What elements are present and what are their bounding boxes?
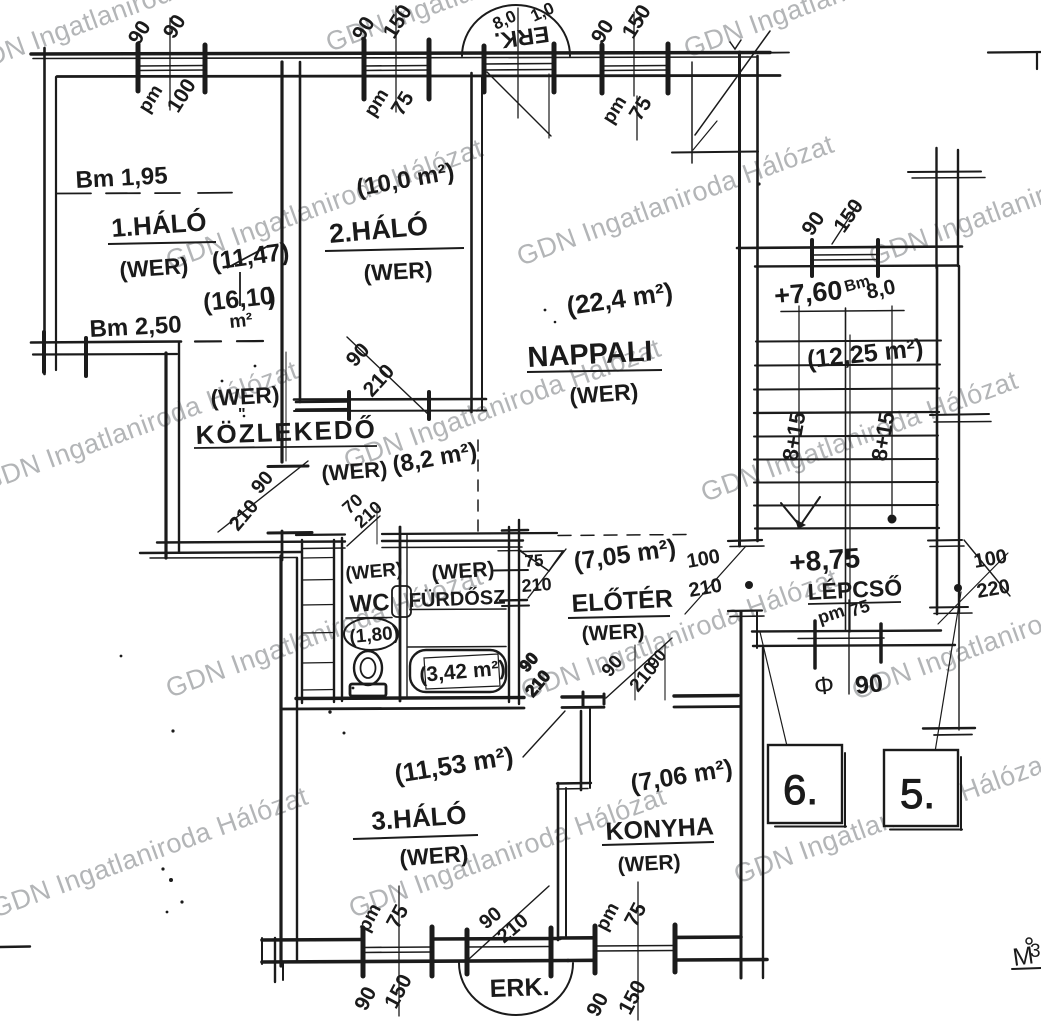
nappali corner small v mark (730, 40, 741, 49)
label kozlekedo WER2 (321, 456, 389, 486)
wall 2.halo-nappali vertical (472, 73, 483, 412)
wall kozlekedo east lower part below door (282, 352, 286, 560)
watermark row3 right (848, 563, 1041, 706)
watermark row4 right (730, 747, 1041, 890)
nappali corner cross diagonal (695, 31, 770, 135)
wall kozlekedo bottom outer line2 (140, 552, 302, 558)
svg-text:5.: 5. (900, 770, 935, 817)
door wc swing diagonal (347, 505, 380, 546)
dashed wall bm250 continuation (195, 340, 268, 343)
label W6 dims below (582, 977, 651, 1021)
label KOZLEKEDO (195, 414, 377, 450)
balcony door top mid lines (484, 64, 554, 71)
nappali corner tick horizontal (672, 152, 758, 153)
door 2.halo head double tick (296, 402, 348, 410)
landing tick right (879, 624, 883, 662)
wc size ellipse (344, 618, 398, 650)
wall 3.halo east jamb (558, 783, 566, 940)
speckle dots (120, 16, 761, 913)
label 7,05 m2 (572, 534, 678, 576)
box 6 (768, 745, 846, 827)
dashed line bm195 (57, 193, 242, 194)
svg-text:3: 3 (1030, 941, 1041, 962)
svg-text:ERK.: ERK. (489, 973, 550, 1003)
svg-text:m²: m² (228, 310, 253, 333)
washbasin (392, 586, 411, 617)
label 11,47 crossed (210, 237, 291, 276)
label ELOTER (571, 584, 674, 618)
wall bath block bottom line1 (296, 696, 738, 699)
landing right step tick pair (923, 728, 975, 735)
window W3 mid lines (602, 66, 668, 71)
door 2.halo dimension diagonal (347, 337, 430, 416)
label kozlekedo underline (194, 446, 377, 448)
watermark row0 center (322, 0, 647, 58)
label 3.halo underline (353, 835, 478, 839)
label NAPPALI (527, 335, 654, 374)
svg-text:Bm 2,50: Bm 2,50 (89, 311, 182, 343)
nappali corner tick vertical (691, 62, 693, 163)
landing right faint vertical (958, 592, 960, 730)
window W5 jambs (363, 927, 432, 976)
wall bath block bottom line2 (281, 707, 740, 710)
label 12,25 m2 (806, 334, 925, 374)
label balcony top dims (490, 0, 557, 34)
wall wc-furdo divider (400, 527, 407, 701)
label M3 bottom right (1011, 938, 1041, 972)
stairs window dimension slash (832, 204, 858, 244)
window W6 dimension divider (637, 882, 639, 1020)
label 1.halo WER (119, 252, 190, 283)
label W5 dims above (354, 900, 414, 935)
window W3 jamb ticks (602, 44, 668, 93)
box 5 label (900, 770, 935, 817)
label wc door 70/210 (338, 490, 386, 532)
window W1 jamb ticks (138, 44, 205, 92)
wall Bm2,50 step horizontal (31, 332, 181, 376)
nappali corner small diagonal (693, 121, 717, 150)
wall 3.halo bottom line2 (262, 961, 568, 963)
balcony door bottom jambs (467, 928, 551, 976)
window W6 mid lines (595, 946, 675, 952)
window W1 dimension divider (169, 18, 171, 110)
door 2.halo jambs (349, 392, 429, 419)
balcony door bottom line (467, 946, 551, 949)
watermark row4 mid (345, 781, 670, 924)
svg-text:": " (238, 406, 246, 423)
wall below 2.halo horizontal (294, 399, 486, 411)
label W2 dims above (348, 1, 417, 45)
stair dot marker (888, 515, 897, 524)
label eloter WER (581, 620, 645, 646)
door elotere left head ticks (728, 540, 764, 617)
label 16,10 m2 (202, 272, 277, 333)
wall nappali east vertical upper (740, 52, 758, 546)
svg-text:(WER): (WER) (431, 558, 495, 585)
wall konyha west jamb step (557, 783, 591, 789)
svg-text:(WER): (WER) (581, 620, 645, 646)
shaft west wall (301, 540, 303, 703)
svg-text:Φ: Φ (813, 671, 836, 701)
label konyha underline (602, 842, 714, 845)
svg-text:(WER): (WER) (119, 252, 190, 283)
label door 100/210 (685, 545, 724, 601)
tick stairs right top (908, 172, 985, 179)
wall top exterior inner line (57, 76, 780, 77)
balcony door top diagonal (487, 72, 551, 138)
label 3.halo WER (399, 840, 470, 871)
label LEPCSO (807, 573, 903, 605)
bathtub inner (424, 654, 500, 689)
watermark row0 right (680, 0, 1005, 64)
label W1 dims below (134, 75, 200, 117)
door elotere left dot (745, 581, 753, 589)
window W2 mid lines (364, 66, 429, 71)
furdosz underline (410, 608, 506, 611)
svg-text:(WER): (WER) (363, 256, 433, 286)
label 11,53 m2 (392, 741, 515, 789)
watermark row1 right (865, 129, 1041, 272)
wall bottom far-left mark (0, 945, 30, 948)
svg-text:Bm 1,95: Bm 1,95 (75, 162, 168, 194)
svg-text:NAPPALI: NAPPALI (527, 335, 654, 374)
door konyha swing diagonal (604, 638, 672, 704)
wall kozlekedo west vertical (166, 342, 179, 558)
wall 1.halo east vertical (between 1.HALO and 2.HALO) (282, 62, 300, 462)
M3 mark underline bottom right (1012, 968, 1041, 969)
watermark row1 left faint (162, 133, 487, 276)
svg-text:ELŐTÉR: ELŐTÉR (571, 584, 674, 618)
label Bm 1,95 (75, 162, 168, 194)
label 3.HALO (370, 799, 467, 836)
label 1.halo underline (108, 242, 216, 244)
label lepcso pm75 (815, 596, 872, 628)
wall konyha west upper (581, 708, 590, 790)
toilet base (350, 684, 386, 696)
label stair window 90/150 (797, 195, 868, 240)
label +7,60 Bm 8,0 (773, 273, 898, 311)
label Bm 2,50 (89, 311, 182, 343)
svg-text:FÜRDŐSZ: FÜRDŐSZ (408, 586, 505, 612)
label eloter underline (568, 616, 670, 618)
window W5 mid lines (363, 947, 432, 953)
landing wall line3 (753, 645, 955, 646)
svg-text:+7,60: +7,60 (773, 275, 844, 311)
stair central divider (799, 306, 892, 632)
wc underline (346, 617, 392, 620)
window W1 mid lines (138, 66, 205, 71)
bathtub outer (408, 647, 506, 693)
watermark row3 left (162, 561, 487, 704)
balcony door top jamb ticks (484, 44, 554, 92)
label furdo WER (431, 558, 495, 585)
label lepcso underline (808, 602, 901, 604)
label konyha WER (617, 851, 681, 877)
wall stairs top horizontal (737, 247, 962, 267)
door right dot (954, 584, 962, 592)
label W5 dims below (350, 971, 417, 1015)
svg-text:KÖZLEKEDŐ: KÖZLEKEDŐ (195, 414, 377, 450)
door right head ticks (928, 540, 972, 614)
balcony bottom semicircle (459, 963, 573, 1015)
dashed boundary nappali-kozlekedo vertical (477, 440, 479, 532)
box 6 label (783, 766, 818, 813)
label door2 90/210 rotated (342, 339, 400, 402)
label W3 dims below (598, 92, 656, 127)
svg-text:90: 90 (854, 669, 885, 700)
watermark row4 left (0, 781, 312, 924)
label ERK bottom (489, 973, 550, 1003)
svg-text:210: 210 (521, 574, 552, 596)
label W6 dims above (592, 899, 652, 935)
label phi 90 (813, 669, 885, 701)
window W5 dimension divider (398, 886, 400, 1016)
window W2 dimension divider (395, 6, 397, 112)
label balcony door bottom 90/210 (475, 903, 533, 948)
wall kozlekedo bottom / bath block top line1 (157, 541, 523, 543)
label stair riser right rotated (866, 410, 899, 463)
shaft east wall (333, 540, 335, 702)
label +8,75 (788, 542, 861, 578)
balcony door bottom diagonal (469, 886, 549, 959)
wall bottom left stub (262, 938, 283, 982)
watermark row0 left (0, 0, 287, 80)
box 5 (884, 750, 962, 830)
tick stairs right mid (930, 414, 991, 422)
phi90 divider line (848, 600, 850, 694)
wall top exterior second line (33, 57, 756, 59)
label W1 dims above (124, 11, 191, 49)
balcony top semicircle (462, 5, 570, 56)
pointer line to box 6 (760, 632, 787, 746)
svg-text:KONYHA: KONYHA (605, 812, 715, 846)
balcony door top divider (517, 8, 519, 118)
label door 100/220 (972, 545, 1012, 602)
svg-text:75: 75 (524, 551, 544, 571)
window W3 dimension divider (634, 12, 637, 140)
shaft hatch rungs (302, 558, 334, 691)
label FURDOSZ (408, 586, 505, 612)
label nappali WER (569, 378, 640, 409)
window W2 jamb ticks (364, 40, 429, 99)
wall top-right corner neighbour (988, 52, 1041, 69)
label 2.HALO (328, 209, 429, 249)
door 1.halo head ticks (268, 466, 312, 533)
window W6 jambs (595, 925, 675, 973)
label wc 1,80 (349, 623, 400, 648)
svg-text:(WER): (WER) (617, 851, 681, 877)
label 2.halo WER (363, 256, 433, 286)
pointer line to box 5 (934, 592, 961, 758)
watermark row2 mid (340, 333, 665, 476)
label W2 dims below (360, 85, 418, 120)
svg-text:WC: WC (349, 589, 390, 618)
dashed boundary nappali-eloter horizontal (558, 535, 688, 536)
label 8,2 m2 (390, 437, 479, 478)
label ERK top upside down (493, 21, 551, 54)
door furdo dimension slash and triangle (498, 549, 566, 598)
stair treads (754, 311, 941, 529)
landing wall line2 (798, 637, 884, 640)
watermark row2 left (0, 355, 302, 498)
door 1.halo swing diagonal (218, 461, 308, 532)
wall 3.halo west vertical (281, 556, 297, 966)
svg-text:(WER): (WER) (569, 378, 640, 409)
wall furdo east (509, 520, 519, 704)
label stair riser left rotated (777, 410, 810, 463)
svg-text:6.: 6. (783, 766, 818, 813)
wall wc west (341, 538, 343, 701)
label kozlekedo ditto (238, 406, 246, 423)
svg-text:(WER): (WER) (321, 456, 389, 486)
wall konyha bottom line2 (568, 960, 767, 961)
stair down arrow (781, 497, 820, 529)
wall konyha bottom line1 (560, 937, 741, 938)
label WC (349, 589, 390, 618)
label wc WER (345, 559, 404, 585)
wall stairs right vertical upper (937, 148, 959, 268)
svg-text:+8,75: +8,75 (788, 542, 861, 578)
svg-text:(1,80): (1,80) (349, 623, 400, 648)
wall 3.halo bottom line1 (262, 939, 560, 941)
watermark row3 mid (517, 563, 842, 706)
label 22,4 m2 (565, 276, 675, 321)
watermark row2 right (697, 365, 1022, 508)
label nappali underline (527, 370, 662, 372)
label 2.halo underline (325, 248, 464, 251)
label kozlekedo WER (210, 381, 280, 411)
label balcony door 90/210 (598, 646, 670, 696)
stairs window jambs (812, 240, 878, 276)
wall top exterior outer line (31, 53, 789, 55)
label furdo door 75 210 (521, 551, 552, 596)
stairs window mid lines (812, 255, 878, 261)
door 3.halo swing diagonal (516, 649, 583, 757)
label door1 90/210 rotated (225, 467, 278, 535)
label 1.HALO (110, 206, 207, 243)
toilet bowl (354, 651, 382, 685)
label KONYHA (605, 812, 715, 846)
landing tick left (813, 621, 817, 668)
label bathtub 3,42 m2 (418, 657, 506, 687)
svg-text:(WER): (WER) (399, 840, 470, 871)
door furdo head ticks (494, 530, 529, 606)
wall stairs right vertical lower (937, 266, 959, 614)
label 10,0 m2 (354, 158, 456, 202)
door elotere swing diagonal (685, 546, 746, 614)
label W3 dims above (587, 1, 656, 48)
watermark row1 mid (513, 129, 838, 272)
door right dimension slash (938, 540, 1010, 624)
wall left exterior (45, 48, 57, 374)
wall east vertical lower (konyha right) (741, 612, 763, 978)
landing wall line1 (752, 631, 941, 632)
label 7,06 m2 (629, 754, 735, 798)
wall bath block top line3 (296, 533, 557, 535)
wall bath block top line4 (302, 547, 522, 549)
